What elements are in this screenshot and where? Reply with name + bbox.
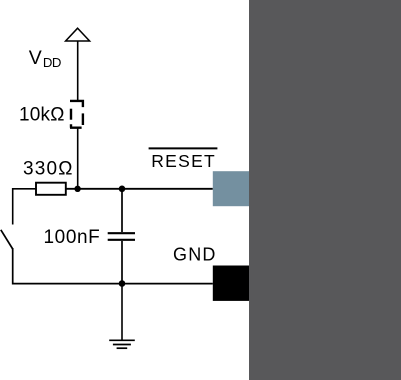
- switch S1 blade: [1, 230, 13, 249]
- GND pin (black pad): [213, 266, 249, 301]
- capacitor C1: [108, 233, 135, 240]
- wire R2 to RESET pin: [66, 188, 213, 190]
- junction node B: [119, 186, 126, 193]
- svg-text:GND: GND: [173, 244, 217, 264]
- MCU body (dark gray block): [249, 0, 401, 380]
- wire VDD to R1: [77, 41, 79, 100]
- junction node C: [119, 280, 126, 287]
- RESET pin (blue pad): [213, 171, 249, 206]
- svg-text:330Ω: 330Ω: [23, 158, 74, 179]
- wire node C to ground: [121, 284, 123, 341]
- wire R1 to node A: [77, 128, 79, 189]
- RESET overline: [149, 147, 218, 149]
- resistor R1 10k (dashed box): [70, 101, 83, 128]
- wire switch to bottom rail: [13, 248, 213, 284]
- VDD power symbol: [66, 28, 90, 41]
- svg-text:VDD: VDD: [29, 47, 61, 70]
- wire C1 to bottom rail: [121, 241, 123, 284]
- svg-text:RESET: RESET: [151, 151, 216, 171]
- svg-text:10kΩ: 10kΩ: [19, 104, 65, 125]
- resistor R2 330: [36, 183, 66, 195]
- wire node B to C1: [121, 189, 123, 232]
- wire left corner to R2: [13, 189, 36, 225]
- ground symbol: [109, 340, 135, 348]
- junction node A: [74, 186, 80, 192]
- svg-text:100nF: 100nF: [44, 227, 101, 248]
